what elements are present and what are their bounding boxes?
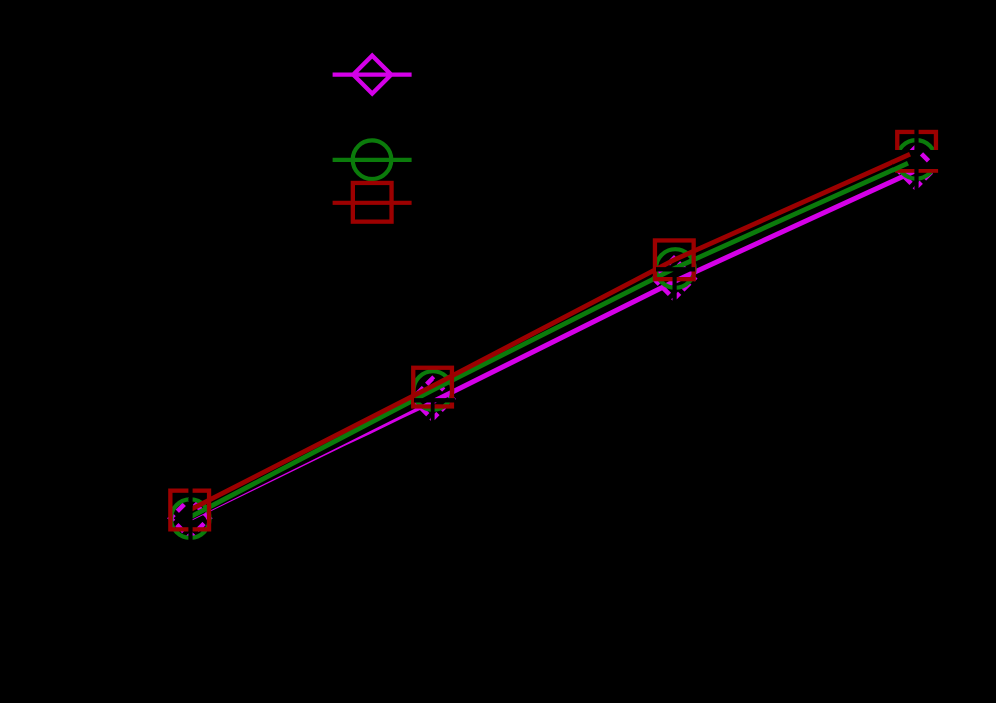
- black errorbar vline p1: [188, 484, 192, 547]
- magenta diamond marker p3: [654, 258, 695, 299]
- green line redrawn over band p4: [892, 163, 908, 170]
- magenta diamond marker p2: [412, 379, 453, 420]
- red square marker p3: [655, 240, 694, 279]
- red series line: [190, 151, 917, 510]
- black errorbar vline p4: [914, 127, 918, 193]
- black errorbar cap p2: [414, 398, 455, 402]
- black errorbar band p4: [893, 150, 940, 169]
- green circle marker p4: [897, 140, 936, 179]
- legend red sample line: [333, 201, 412, 205]
- legend magenta sample line: [333, 72, 412, 76]
- black errorbar vline p3: [672, 272, 676, 304]
- magenta diamond marker p4: [895, 147, 936, 188]
- green circle marker p1: [171, 499, 210, 538]
- magenta diamond dash redrawn over band p4: [922, 154, 929, 161]
- magenta series line p1-p2 (tapered, partly occluded): [190, 400, 432, 522]
- legend green circle: [353, 140, 392, 179]
- legend red square: [353, 183, 392, 222]
- magenta diamond marker p1: [170, 499, 209, 538]
- green circle marker p2: [414, 371, 453, 410]
- black errorbar vline p2: [431, 396, 435, 427]
- red square marker p1: [170, 491, 209, 530]
- red line redrawn over band p4: [892, 154, 910, 162]
- red square marker p2: [413, 368, 452, 407]
- magenta series line p2-p4: [432, 171, 915, 402]
- green series line: [190, 159, 916, 517]
- black errorbar cap p3: [656, 267, 695, 271]
- red square marker p4: [897, 132, 936, 171]
- green circle marker p3: [656, 249, 695, 288]
- legend green sample line: [333, 158, 412, 162]
- legend magenta diamond: [353, 56, 391, 94]
